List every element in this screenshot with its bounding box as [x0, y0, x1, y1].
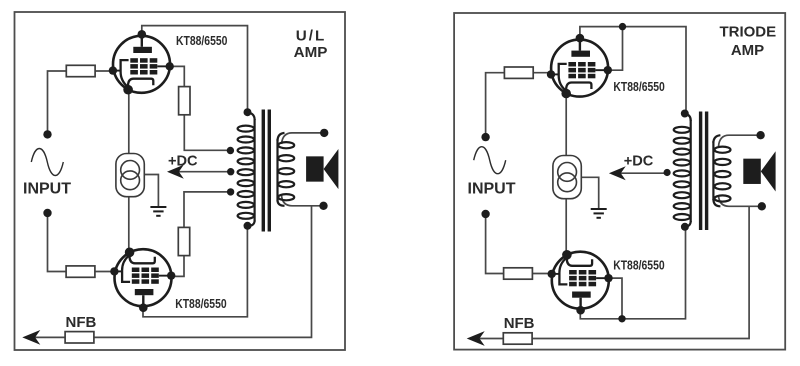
- svg-text:NFB: NFB: [66, 314, 97, 331]
- svg-text:TRIODE: TRIODE: [719, 23, 776, 40]
- svg-text:NFB: NFB: [504, 315, 535, 332]
- svg-text:AMP: AMP: [731, 42, 764, 59]
- svg-text:KT88/6550: KT88/6550: [175, 297, 227, 311]
- svg-text:INPUT: INPUT: [468, 181, 516, 198]
- svg-text:+DC: +DC: [624, 154, 654, 170]
- svg-text:U/L: U/L: [296, 27, 326, 44]
- svg-text:KT88/6550: KT88/6550: [176, 34, 228, 48]
- svg-text:KT88/6550: KT88/6550: [613, 258, 665, 272]
- svg-text:INPUT: INPUT: [23, 181, 71, 198]
- svg-text:+DC: +DC: [168, 154, 198, 170]
- svg-text:KT88/6550: KT88/6550: [613, 80, 665, 94]
- svg-text:AMP: AMP: [294, 44, 328, 61]
